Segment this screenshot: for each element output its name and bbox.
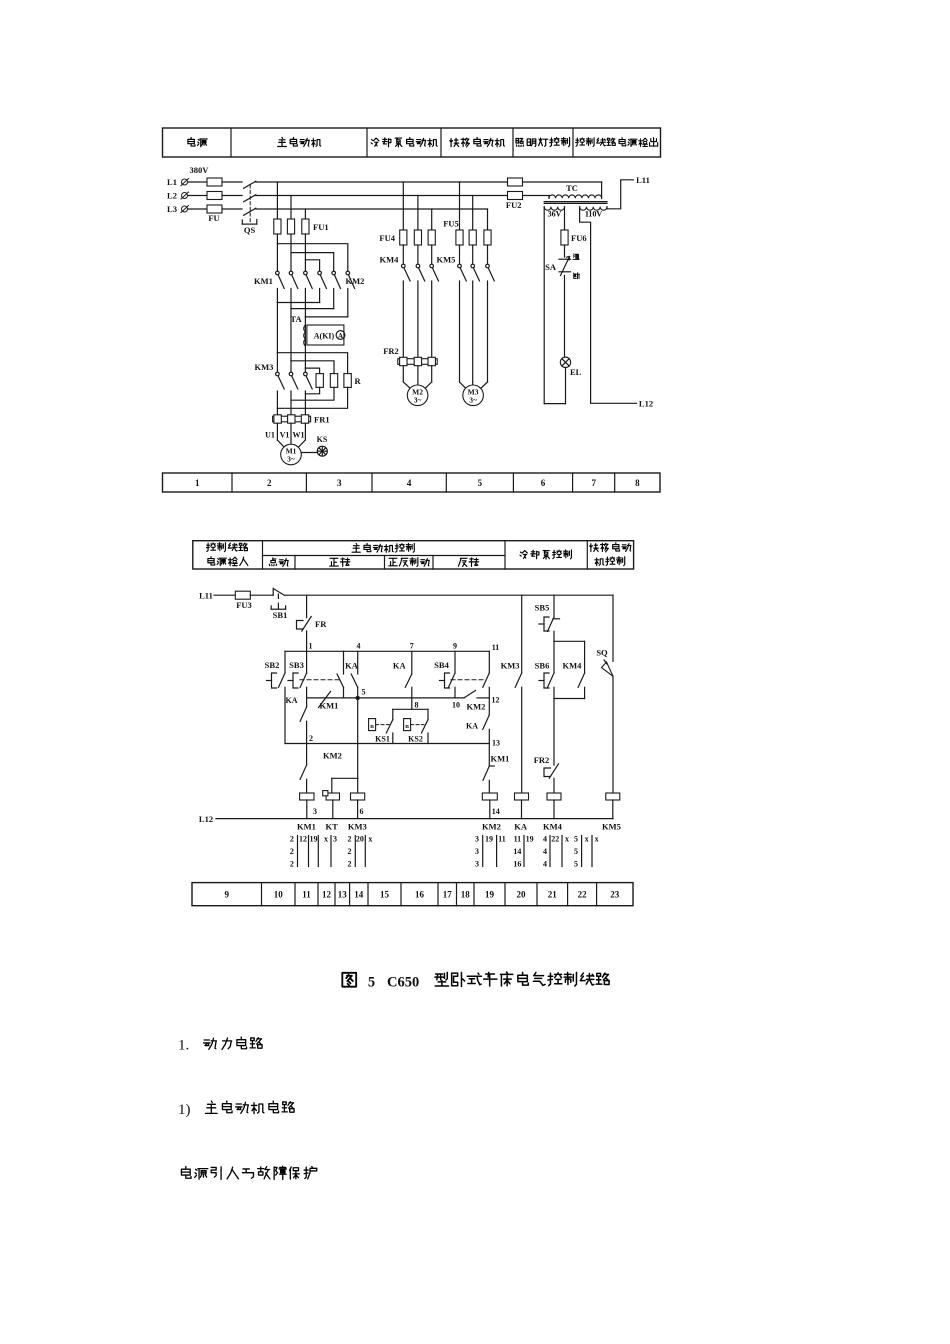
frame: control diagram column header table (193, 541, 634, 569)
svg-text:2: 2 (290, 835, 294, 844)
svg-text:36V: 36V (548, 210, 562, 219)
svg-text:FU3: FU3 (236, 600, 252, 610)
contact KM1 self-lock (horizontal) (319, 692, 339, 711)
svg-text:2: 2 (348, 847, 352, 856)
contact KA (node 7) (393, 651, 412, 698)
svg-text:A(KI): A(KI) (314, 332, 335, 341)
svg-text:KM4: KM4 (543, 822, 563, 832)
svg-text:14: 14 (513, 847, 521, 856)
speed relay contact KS2 (404, 709, 428, 743)
coil KT (time relay) (323, 791, 340, 819)
svg-text:380V: 380V (190, 165, 210, 175)
svg-text:FU1: FU1 (313, 222, 329, 232)
svg-text:V1: V1 (280, 431, 290, 440)
table KA contact references (513, 835, 533, 869)
wire L2 fuse to switch QS (222, 195, 242, 197)
svg-text:L12: L12 (639, 399, 653, 409)
svg-text:110V: 110V (585, 210, 603, 219)
wire phase V drop to FU1 (290, 196, 292, 220)
svg-text:3~: 3~ (469, 395, 477, 404)
svg-text:1: 1 (309, 641, 313, 650)
svg-text:KM1: KM1 (491, 754, 510, 764)
svg-text:SB5: SB5 (535, 602, 550, 612)
svg-text:W1: W1 (293, 431, 305, 440)
node 11 (492, 643, 500, 652)
svg-text:2: 2 (290, 847, 294, 856)
label 380V (190, 165, 210, 175)
wire SB5 split to SB6/KM4 (554, 641, 585, 673)
transformer TC primary winding (549, 182, 602, 198)
wire contact outputs to motor bus (phase swap) (277, 289, 347, 369)
thermal relay FR2 heater (383, 346, 437, 366)
node L2 supply terminal (167, 191, 188, 201)
svg-text:20: 20 (356, 835, 364, 844)
svg-text:L3: L3 (167, 204, 177, 214)
svg-text:SB6: SB6 (535, 660, 550, 670)
svg-text:FU2: FU2 (506, 200, 522, 210)
svg-text:12: 12 (492, 696, 500, 705)
svg-text:4: 4 (357, 641, 361, 650)
svg-text:5: 5 (574, 847, 578, 856)
svg-text:KA: KA (286, 696, 298, 705)
node L3 supply terminal (167, 204, 188, 214)
caption figure 5 (342, 972, 609, 990)
svg-text:12: 12 (299, 835, 307, 844)
svg-text:A: A (338, 332, 343, 340)
wire 36V left leg (543, 207, 545, 404)
svg-text:SQ: SQ (596, 648, 608, 658)
svg-text:KM5: KM5 (602, 822, 621, 832)
svg-text:7: 7 (591, 478, 596, 488)
node L11 outgoing (636, 175, 650, 185)
wire L1 rail (256, 181, 602, 183)
frame: power diagram zone number strip 1-8 (163, 473, 661, 492)
wire 110V left leg to L12 (580, 207, 637, 403)
wire FU3 to SB1 (250, 594, 273, 596)
node 13 (492, 738, 500, 747)
wire bus A (nodes 1-11) (285, 650, 489, 652)
coil KM2 (482, 793, 497, 819)
svg-text:5: 5 (368, 975, 375, 991)
svg-text:KA: KA (466, 722, 478, 731)
wire FR2 to motor M2 (403, 366, 431, 389)
lamp EL (560, 357, 581, 377)
svg-text:3: 3 (475, 860, 479, 869)
wire FU1 to KM1 contacts and KM2 cross bridges (277, 234, 347, 271)
svg-text:5: 5 (362, 688, 366, 697)
svg-text:12: 12 (322, 890, 332, 900)
svg-text:KM2: KM2 (323, 751, 342, 761)
svg-text:2: 2 (348, 835, 352, 844)
wire phase U drop to FU1 (276, 182, 278, 219)
node L11 control feed (199, 591, 213, 601)
label coil KM5 (602, 822, 621, 832)
fuse FU5 (443, 219, 491, 246)
svg-text:19: 19 (485, 890, 495, 900)
svg-text:6: 6 (541, 478, 546, 488)
contact KM1 interlock (node 13) (483, 744, 509, 794)
svg-text:10: 10 (452, 700, 460, 709)
coil KM5 (606, 793, 620, 819)
svg-text:4: 4 (543, 860, 547, 869)
svg-text:8: 8 (635, 478, 640, 488)
wire L3 rail (256, 208, 488, 210)
contactor KM5 main contacts (437, 245, 495, 281)
svg-text:SB1: SB1 (273, 610, 288, 620)
label coil KM2 (482, 822, 501, 832)
node 9 (453, 641, 457, 650)
contact KA self-lock (below SB3) (286, 687, 307, 743)
wire L1 fuse to switch QS (222, 181, 242, 183)
svg-text:L12: L12 (199, 814, 213, 824)
frame: control diagram zone number strip 9-23 (192, 883, 633, 906)
svg-text:KM1: KM1 (297, 822, 316, 832)
node L1 supply terminal (167, 177, 188, 187)
svg-text:4: 4 (543, 835, 547, 844)
wire bus C (nodes 2-13) (285, 743, 489, 745)
svg-text:1.: 1. (178, 1038, 189, 1054)
svg-text:2: 2 (290, 860, 294, 869)
svg-text:TA: TA (290, 314, 302, 324)
table KT contact references (324, 835, 337, 867)
thermal relay FR1 heater (273, 415, 330, 425)
contactor KM3 short-circuit contacts (255, 353, 313, 389)
svg-text:13: 13 (492, 738, 500, 747)
svg-text:KS2: KS2 (408, 735, 423, 744)
wire L2 from terminal to fuse FU (188, 195, 207, 197)
wire cooling pump drops to FU4 (403, 182, 431, 230)
svg-text:1: 1 (195, 478, 200, 488)
svg-text:18: 18 (461, 890, 471, 900)
svg-text:2: 2 (309, 734, 313, 743)
svg-text:L11: L11 (636, 175, 650, 185)
wire phase W drop to FU1 (304, 209, 306, 219)
svg-text:KM1: KM1 (320, 701, 339, 711)
svg-text:R: R (355, 376, 362, 386)
wire bus B (nodes 5-8-10) (307, 697, 464, 699)
svg-text:U1: U1 (265, 431, 275, 440)
svg-text:14: 14 (354, 890, 364, 900)
svg-text:4: 4 (543, 847, 547, 856)
pushbutton SB1 stop (271, 588, 287, 620)
coil KM3 (351, 793, 365, 819)
resistor R (3 elements) (316, 374, 362, 388)
wire top rail from L11 to FU3 (214, 594, 235, 596)
svg-text:9: 9 (225, 890, 230, 900)
motor M3 (463, 385, 484, 406)
current transformer TA with ammeter A(KI) (290, 314, 344, 346)
contactor KM2 main contacts (318, 271, 365, 288)
svg-text:7: 7 (410, 641, 414, 650)
node 6 (360, 807, 364, 816)
body text 3 (181, 1166, 316, 1179)
svg-text:L11: L11 (199, 591, 213, 601)
speed relay KS sensor (301, 435, 328, 456)
svg-text:19: 19 (310, 835, 318, 844)
body text 1 (178, 1037, 262, 1053)
svg-text:FR2: FR2 (534, 755, 550, 765)
contact KA (node 12) (466, 715, 489, 744)
labels U1 V1 W1 (265, 431, 304, 440)
svg-text:KM5: KM5 (437, 255, 456, 265)
table KM3 contact references (348, 835, 373, 869)
svg-text:EL: EL (570, 367, 582, 377)
pushbutton SB6 coolant start (535, 660, 554, 698)
wire SB6 to FR2 contact (553, 699, 555, 766)
svg-text:KM4: KM4 (563, 660, 583, 670)
contact KM2 interlock (left) (300, 744, 342, 794)
svg-text:21: 21 (548, 890, 558, 900)
svg-text:19: 19 (485, 835, 493, 844)
pushbutton SB4 reverse (434, 651, 484, 698)
svg-text:x: x (565, 835, 569, 844)
table KM2 contact references (475, 835, 506, 869)
svg-text:KT: KT (325, 822, 338, 832)
svg-text:3~: 3~ (414, 395, 422, 404)
wire 36V right leg to FU6 (564, 207, 566, 230)
svg-text:19: 19 (526, 835, 534, 844)
wire SA to lamp EL (564, 276, 566, 358)
svg-text:KA: KA (345, 660, 359, 670)
svg-text:x: x (368, 835, 372, 844)
svg-text:KA: KA (514, 822, 528, 832)
coil KA (515, 793, 529, 819)
svg-text:4: 4 (407, 478, 412, 488)
node 14 (492, 807, 500, 816)
label coil KM3 (348, 822, 367, 832)
table KM4 contact references (543, 835, 569, 869)
svg-text:KA: KA (393, 660, 407, 670)
transformer TC 36V secondary winding (544, 207, 564, 219)
svg-text:SA: SA (545, 262, 557, 272)
svg-text:6: 6 (360, 807, 364, 816)
pushbutton SB5 coolant stop (535, 595, 560, 641)
frame: power diagram column header table (163, 128, 661, 157)
wire resistor bridge taps (277, 353, 347, 374)
transformer TC core (544, 202, 607, 204)
fuse FU3 (235, 591, 251, 610)
wire L3 from terminal to fuse FU (188, 208, 207, 210)
node 3 (313, 807, 317, 816)
svg-text:KM2: KM2 (346, 276, 365, 286)
fuse FU (3 poles) (207, 178, 222, 223)
svg-text:C650: C650 (387, 975, 419, 991)
wire bottom rail L12 (216, 818, 613, 820)
motor M2 (407, 385, 428, 406)
node L12 outgoing (639, 399, 653, 409)
svg-text:10: 10 (274, 890, 284, 900)
svg-text:5: 5 (574, 860, 578, 869)
label coil KM1 (297, 822, 316, 832)
svg-text:3: 3 (313, 807, 317, 816)
contact KM2 interlock (horizontal) (464, 691, 489, 712)
svg-text:22: 22 (551, 835, 559, 844)
speed relay contact KS1 (369, 698, 428, 744)
coil KM1 (300, 793, 314, 819)
svg-text:1): 1) (178, 1102, 191, 1118)
wire L3 fuse to switch QS (222, 208, 242, 210)
svg-text:22: 22 (578, 890, 588, 900)
fuse FU2 (2 poles) (506, 178, 523, 210)
svg-text:KS1: KS1 (375, 735, 390, 744)
svg-text:n: n (405, 723, 409, 730)
wire KM5 to motor M3 (460, 281, 488, 389)
svg-text:L2: L2 (167, 191, 177, 201)
svg-text:3: 3 (475, 847, 479, 856)
svg-text:17: 17 (443, 890, 453, 900)
svg-text:11: 11 (302, 890, 311, 900)
svg-text:SB4: SB4 (434, 660, 449, 670)
svg-text:11: 11 (498, 835, 506, 844)
svg-text:x: x (595, 835, 599, 844)
contactor KM1 main contacts (254, 271, 312, 288)
svg-text:x: x (585, 835, 589, 844)
label coil KM4 (543, 822, 563, 832)
svg-text:11: 11 (492, 643, 500, 652)
svg-text:20: 20 (517, 890, 527, 900)
wire top rail SB1 to SQ corner (285, 594, 613, 596)
table KM5 contact references (574, 835, 599, 869)
switch QS (242, 181, 256, 235)
svg-text:L1: L1 (167, 177, 177, 187)
node 7 (410, 641, 414, 650)
svg-text:KM3: KM3 (501, 660, 520, 670)
svg-text:2: 2 (267, 478, 272, 488)
fuse FU6 (561, 230, 587, 245)
wire resistor returns (277, 387, 347, 415)
node 5 junction (356, 688, 366, 700)
svg-text:13: 13 (338, 890, 348, 900)
node 1 (309, 641, 313, 650)
svg-text:n: n (370, 723, 374, 730)
wire L1 from terminal to fuse FU (188, 181, 207, 183)
node L12 control return (199, 814, 213, 824)
svg-text:QS: QS (244, 225, 256, 235)
svg-text:KM1: KM1 (254, 276, 273, 286)
wire FR1 to motor M1 (277, 423, 305, 447)
wire 110V right leg to L11 (607, 180, 634, 209)
node 12 (492, 696, 500, 705)
switch SA lighting (545, 245, 579, 279)
svg-text:3: 3 (333, 835, 337, 844)
thermal contact FR (297, 595, 328, 651)
fuse FU1 (3 poles) (274, 219, 329, 234)
svg-text:KM3: KM3 (255, 362, 274, 372)
svg-text:2: 2 (348, 860, 352, 869)
wire lamp to 36V bottom (544, 368, 565, 404)
svg-text:FR2: FR2 (383, 346, 399, 356)
svg-text:FU: FU (208, 213, 219, 223)
svg-text:FR: FR (315, 619, 327, 629)
table KM1 contact references (290, 835, 318, 869)
svg-text:16: 16 (513, 860, 521, 869)
svg-text:3: 3 (337, 478, 342, 488)
pushbutton SB2 jog (265, 651, 285, 743)
svg-text:KM3: KM3 (348, 822, 367, 832)
svg-text:KM4: KM4 (380, 255, 400, 265)
svg-text:11: 11 (514, 835, 522, 844)
node 8 (415, 700, 419, 709)
svg-text:TC: TC (566, 183, 578, 193)
thermal contact FR2 (534, 755, 559, 793)
wire L2 rail (256, 195, 549, 197)
contact linked to SB4 (node 11) (483, 651, 490, 715)
node 2 (309, 734, 313, 743)
transformer TC 110V secondary winding (580, 207, 607, 219)
svg-text:KM2: KM2 (467, 702, 486, 712)
contact KM3 (coolant column) (501, 595, 522, 793)
pushbutton SB3 start fwd (288, 651, 339, 688)
node 4 (357, 641, 361, 650)
wire node 5 to KT/KM3 coils (332, 698, 358, 793)
label coil KT (325, 822, 338, 832)
svg-text:9: 9 (453, 641, 457, 650)
svg-text:FR1: FR1 (314, 415, 330, 425)
svg-text:15: 15 (380, 890, 390, 900)
label coil KA (514, 822, 528, 832)
svg-text:3~: 3~ (287, 455, 295, 464)
contactor KM4 main contacts (380, 245, 439, 281)
node 10 (452, 700, 460, 709)
fuse FU4 (379, 230, 435, 245)
svg-text:23: 23 (610, 890, 620, 900)
svg-text:KS: KS (317, 435, 328, 444)
contact KM4 self-lock (554, 660, 585, 698)
svg-text:5: 5 (574, 835, 578, 844)
body text 2 (178, 1101, 294, 1118)
wire traverse drops to FU5 (460, 182, 488, 230)
svg-text:FU6: FU6 (571, 233, 587, 243)
contact pair jog link and KA (node 4) (337, 651, 359, 698)
svg-text:SB2: SB2 (265, 660, 280, 670)
svg-text:KM2: KM2 (482, 822, 501, 832)
svg-text:16: 16 (415, 890, 425, 900)
svg-text:3: 3 (475, 835, 479, 844)
svg-text:FU5: FU5 (443, 219, 459, 229)
limit switch SQ (596, 595, 613, 793)
motor M1 (281, 444, 302, 465)
wire KM4 to FR2 (403, 281, 431, 357)
svg-text:8: 8 (415, 700, 419, 709)
coil KM4 (547, 793, 561, 819)
svg-text:SB3: SB3 (289, 660, 304, 670)
svg-text:FU4: FU4 (379, 233, 395, 243)
svg-text:x: x (324, 835, 328, 844)
svg-text:14: 14 (492, 807, 500, 816)
svg-text:5: 5 (478, 478, 483, 488)
